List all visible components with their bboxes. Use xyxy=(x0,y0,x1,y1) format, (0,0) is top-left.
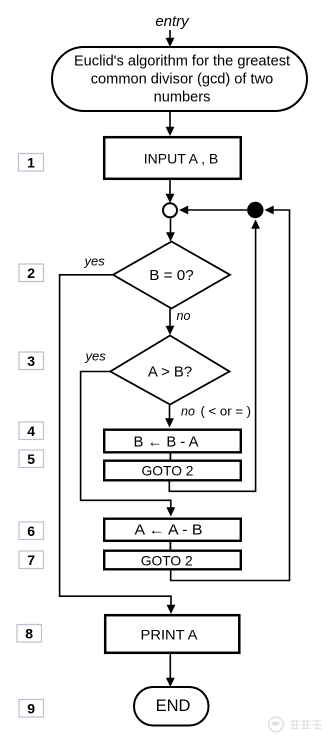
label 3 xyxy=(19,352,44,370)
svg-text:GOTO 2: GOTO 2 xyxy=(141,552,193,568)
svg-text:4: 4 xyxy=(27,423,35,439)
wire yes branch of A>B? down to box A=A-B xyxy=(81,372,176,517)
process box: GOTO 2 (7) xyxy=(104,551,241,570)
wire entry to title oval xyxy=(166,30,175,47)
svg-text:A > B?: A > B? xyxy=(148,365,192,381)
svg-text:PRINT A: PRINT A xyxy=(141,627,199,643)
label no ( < or = ) xyxy=(181,403,251,418)
wire B=0? to A>B? xyxy=(166,309,175,336)
svg-text:7: 7 xyxy=(27,552,35,568)
wire A>B? to box B=B-A xyxy=(165,405,174,428)
label 1 xyxy=(19,154,44,172)
svg-text:A ← A - B: A ← A - B xyxy=(135,522,203,538)
label 9 xyxy=(19,700,44,718)
wire box A=A-B to box GOTO 2 (7) xyxy=(169,541,171,552)
wire oval to INPUT box xyxy=(166,112,175,136)
svg-text:GOTO 2: GOTO 2 xyxy=(142,463,194,479)
svg-text:B ← B - A: B ← B - A xyxy=(134,435,199,451)
svg-text:common divisor (gcd) of two: common divisor (gcd) of two xyxy=(91,72,273,88)
svg-text:INPUT A , B: INPUT A , B xyxy=(144,150,218,166)
svg-text:3: 3 xyxy=(27,353,35,369)
wire junction circle to diamond B=0? xyxy=(166,219,175,242)
label 2 xyxy=(19,264,44,282)
decision diamond: A > B? xyxy=(110,336,229,405)
decision diamond: B = 0? xyxy=(113,242,230,309)
svg-text:no: no xyxy=(181,404,195,418)
wire INPUT box to junction circle xyxy=(166,180,175,203)
process box: A = A - B xyxy=(104,519,241,541)
wire PRINT A to END xyxy=(166,654,175,687)
svg-text:END: END xyxy=(156,697,191,715)
watermark logo icon xyxy=(269,717,284,732)
svg-text:numbers: numbers xyxy=(154,90,211,106)
process box: B = B - A xyxy=(104,430,241,453)
watermark text placeholder glyphs xyxy=(291,721,322,729)
svg-text:yes: yes xyxy=(84,254,106,269)
svg-text:5: 5 xyxy=(27,451,35,467)
process box: INPUT A , B xyxy=(104,137,241,179)
label 8 xyxy=(17,625,42,643)
label 7 xyxy=(19,551,44,569)
label 5 xyxy=(19,450,44,468)
svg-text:8: 8 xyxy=(25,626,33,642)
svg-text:( < or = ): ( < or = ) xyxy=(201,403,252,418)
wire inner loop from GOTO2 box5 up to merge dot xyxy=(169,220,260,492)
label 6 xyxy=(19,522,44,540)
wire merge dot to junction circle xyxy=(179,206,247,215)
svg-text:1: 1 xyxy=(27,155,35,171)
svg-text:B = 0?: B = 0? xyxy=(149,268,194,284)
label 4 xyxy=(19,422,44,440)
svg-text:yes: yes xyxy=(85,349,107,364)
node junction open circle (2) xyxy=(163,203,177,217)
svg-text:6: 6 xyxy=(27,523,35,539)
wire box B=B-A to box GOTO 2 xyxy=(169,453,171,462)
node merge dot (filled) xyxy=(247,202,263,218)
process box: PRINT A xyxy=(105,615,239,653)
terminator oval: Euclid's algorithm title xyxy=(52,47,307,111)
process box: GOTO 2 (5) xyxy=(104,461,241,481)
svg-text:no: no xyxy=(177,309,191,323)
svg-text:entry: entry xyxy=(155,13,190,30)
wire yes branch of B=0? down to PRINT A xyxy=(60,275,176,614)
svg-text:Euclid's algorithm for the gre: Euclid's algorithm for the greatest xyxy=(74,54,290,70)
wire right loop from GOTO2 box7 up to merge dot xyxy=(171,206,290,581)
svg-text:2: 2 xyxy=(27,265,35,281)
terminator oval: END xyxy=(134,687,209,726)
svg-text:9: 9 xyxy=(27,701,35,717)
